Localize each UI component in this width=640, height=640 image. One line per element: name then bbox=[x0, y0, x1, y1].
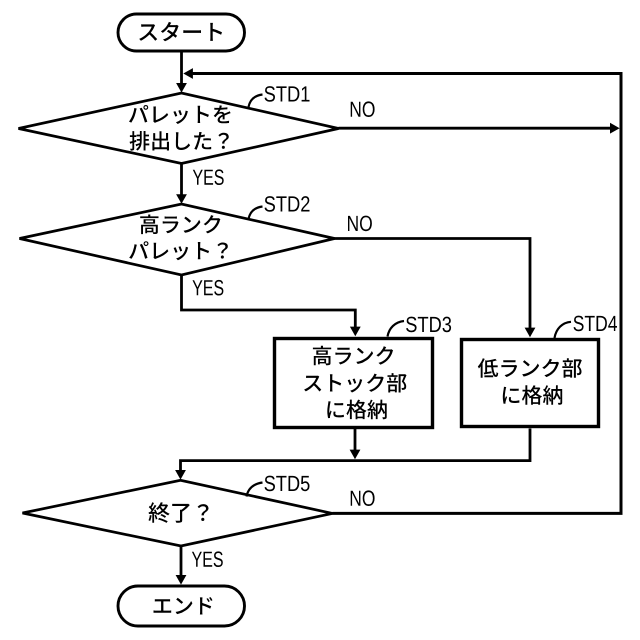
wire STD1 NO to right loop line bbox=[339, 123, 620, 134]
label STD5 bbox=[265, 476, 310, 492]
leader line STD5 bbox=[247, 483, 263, 497]
wire STD5 YES to end bbox=[176, 546, 187, 585]
wire loopback: STD5-NO right, up, and back into start wire bbox=[183, 68, 621, 513]
terminator: start (スタート) bbox=[118, 14, 245, 51]
leader line STD3 bbox=[388, 321, 405, 337]
label NO (STD1) bbox=[351, 101, 375, 117]
leader line STD2 bbox=[249, 207, 263, 220]
label STD3 bbox=[406, 317, 451, 333]
decision STD2: 高ランクパレット？ bbox=[20, 204, 335, 275]
label STD1 bbox=[265, 86, 310, 102]
label YES (STD2) bbox=[193, 280, 224, 296]
wire STD2 YES to STD3 bbox=[182, 275, 361, 336]
label NO (STD5) bbox=[351, 490, 375, 506]
wire STD3 out to merge line bbox=[350, 429, 361, 460]
wire start to STD1 bbox=[176, 51, 187, 93]
label NO (STD2) bbox=[348, 216, 372, 232]
leader line STD1 bbox=[249, 95, 263, 108]
wire STD1 YES to STD2 bbox=[176, 164, 187, 204]
process STD3: 高ランクストック部に格納 bbox=[275, 339, 433, 428]
wire STD4 out, merge line, down into STD5 bbox=[175, 429, 530, 480]
label STD2 bbox=[265, 196, 310, 212]
process STD4: 低ランク部に格納 bbox=[462, 340, 599, 427]
terminator: end (エンド) bbox=[118, 586, 245, 626]
decision STD1: パレットを排出した？ bbox=[19, 93, 339, 164]
wire STD2 NO to STD4 bbox=[335, 239, 536, 338]
leader line STD4 bbox=[555, 322, 572, 338]
decision STD5: 終了？ bbox=[23, 480, 333, 546]
label YES (STD1) bbox=[193, 169, 224, 185]
label YES (STD5) bbox=[192, 551, 223, 567]
label STD4 bbox=[574, 316, 618, 332]
